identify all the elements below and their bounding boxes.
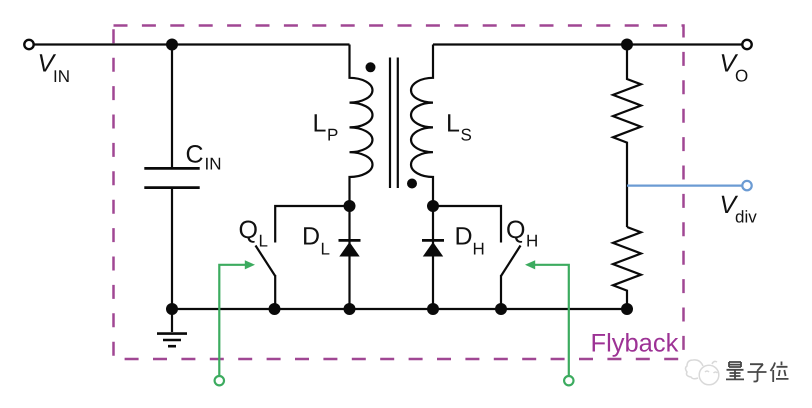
wire: top-right rail from secondary to VO terminal: [433, 43, 742, 45]
node: rail junction at QL: [269, 303, 281, 315]
svg-text:P: P: [327, 126, 338, 145]
switch QL blade: [256, 246, 276, 277]
gate drive QH (green control line with arrow): [525, 260, 569, 376]
polarity dot primary: [366, 62, 376, 72]
node: rail junction at DH: [427, 303, 439, 315]
resistor R2 (lower divider): [613, 227, 641, 309]
wire: QH top connection: [433, 206, 501, 243]
terminal QH gate (green open circle): [564, 376, 573, 385]
inductor LS (transformer secondary winding): [411, 45, 433, 207]
label QL: [239, 216, 268, 251]
label LS: [446, 110, 472, 145]
wire: top-left rail from VIN terminal to primary: [34, 43, 350, 45]
terminal Vdiv (blue open circle): [742, 181, 751, 190]
svg-text:IN: IN: [205, 155, 222, 174]
svg-text:O: O: [735, 67, 748, 86]
resistor R1 (upper divider): [613, 45, 641, 228]
node: output top junction: [621, 39, 633, 51]
node: rail junction at DL: [344, 303, 356, 315]
svg-text:S: S: [461, 126, 472, 145]
svg-text:IN: IN: [53, 67, 70, 86]
label VO: [720, 50, 749, 86]
dashed boundary box (Flyback): [114, 26, 684, 360]
svg-text:C: C: [186, 141, 204, 169]
node: secondary bottom junction: [427, 200, 439, 212]
label VIN: [38, 50, 71, 87]
svg-text:Flyback: Flyback: [591, 330, 679, 358]
terminal VIN (open circle): [24, 40, 33, 49]
svg-text:Q: Q: [506, 216, 525, 244]
svg-text:L: L: [313, 110, 327, 138]
capacitor CIN: [144, 45, 199, 310]
diode DH: [422, 206, 444, 309]
wire: QH bottom contact: [500, 275, 502, 309]
bottom ground rail: [172, 308, 627, 310]
svg-text:L: L: [446, 110, 460, 138]
polarity dot secondary: [407, 179, 417, 189]
watermark logo (faint mascot): [686, 360, 719, 385]
ground symbol: [157, 309, 187, 346]
wire: Vdiv tap (blue): [627, 185, 742, 187]
svg-text:L: L: [259, 232, 268, 251]
node: rail junction at QH: [495, 303, 507, 315]
label DL: [302, 223, 330, 259]
diode DL: [339, 206, 361, 309]
wire: QL bottom contact: [274, 275, 276, 309]
gate drive QL (green control line with arrow): [219, 260, 255, 376]
label QH: [506, 216, 538, 251]
node: rail junction at divider: [621, 303, 633, 315]
node: rail junction at CIN: [166, 303, 178, 315]
svg-text:H: H: [526, 232, 538, 251]
terminal VO (open circle): [742, 40, 751, 49]
svg-text:div: div: [735, 208, 757, 227]
label CIN: [186, 141, 222, 174]
node: input top junction: [166, 39, 178, 51]
switch QH blade: [501, 246, 521, 277]
label Vdiv: [720, 191, 758, 227]
node: primary bottom junction: [344, 200, 356, 212]
svg-text:L: L: [321, 240, 330, 259]
wire: QL top connection: [275, 206, 349, 243]
svg-text:D: D: [302, 223, 320, 251]
transformer core lines: [390, 58, 398, 189]
svg-text:Q: Q: [239, 216, 258, 244]
svg-text:D: D: [455, 223, 473, 251]
inductor LP (transformer primary winding): [350, 45, 373, 207]
watermark text 量子位 (drawn strokes): [726, 362, 789, 383]
label DH: [455, 223, 485, 259]
terminal QL gate (green open circle): [215, 376, 224, 385]
svg-text:H: H: [473, 240, 485, 259]
label LP: [313, 110, 339, 145]
